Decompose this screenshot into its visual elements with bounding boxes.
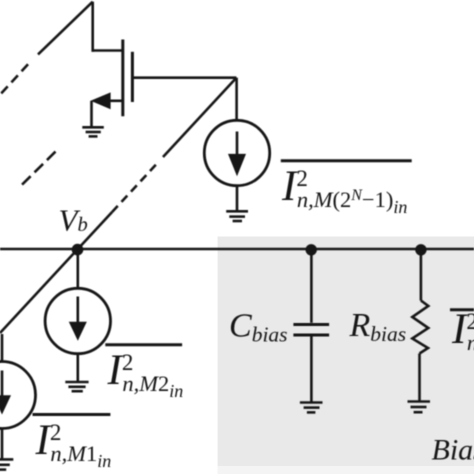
ground under I_n,M1 [0, 459, 13, 469]
V_b bias rail [0, 248, 474, 251]
wire: source tap horizontal [108, 100, 123, 103]
wire: R_bias top [420, 249, 423, 301]
gate diagonal rail solid upper part [163, 78, 236, 157]
current source I_n,M(2^N-1) circle [204, 120, 269, 185]
ground under I_n,M2 [65, 382, 88, 391]
wire: below current source to ground [236, 186, 239, 212]
ground under R_bias [408, 402, 431, 413]
current source I_n,M2 arrow shaft [77, 297, 80, 325]
wire: drain tap horizontal into transistor [93, 49, 123, 52]
current source I_n,M1 arrow shaft [1, 371, 4, 399]
wire: C_bias bottom to ground [310, 337, 313, 403]
current source I_n,M(2^N-1) arrow head [228, 154, 246, 176]
gate diagonal rail dashed middle [112, 165, 156, 212]
short dashed ellipsis rail [22, 152, 56, 186]
svg-text:Bias Circ: Bias Circ [432, 434, 474, 467]
junction dot V_b node [72, 244, 84, 256]
svg-text:I2n,: I2n, [451, 306, 474, 355]
wire: C_bias top [310, 249, 313, 323]
bias box lighter bottom strip [218, 466, 474, 474]
transistor M(2^N-1) gate bar [131, 52, 134, 102]
junction dot R_bias node [415, 244, 426, 255]
wire: below M1 noise source to ground [1, 429, 4, 460]
wire: V_b node down to M2 noise source [77, 249, 80, 289]
junction dot C_bias node [306, 244, 317, 255]
current source arrow shaft [236, 132, 239, 157]
ground under C_bias [300, 403, 323, 413]
wire: below M2 noise source to ground [77, 354, 80, 382]
wire: source down to ground [90, 101, 93, 127]
ground under transistor [82, 127, 104, 136]
gate diagonal rail solid lower part to V_b [0, 212, 112, 333]
wire: drain vertical from apex [91, 2, 94, 52]
wire: drain diagonal rail dashed continuation [0, 64, 28, 98]
current source I_n,M2 arrow head [69, 322, 87, 341]
capacitor C_bias top plate [293, 323, 329, 326]
current source I_n,M1 circle [0, 362, 36, 429]
wire: M1 branch top [1, 334, 4, 362]
overline for I_n,M2 label [105, 343, 182, 346]
overline for I_n,M1 label [33, 413, 111, 416]
transistor M(2^N-1) channel bar [121, 40, 124, 117]
overline for I_n,M(2^N-1) label [281, 159, 412, 162]
wire: drain diagonal rail (solid part) to apex [38, 2, 93, 55]
current source I_n,M1 arrow head [0, 395, 11, 414]
transistor source arrow head [91, 92, 111, 109]
ground under I_n,M(2^N-1) [226, 211, 248, 221]
resistor R_bias zigzag [412, 301, 428, 354]
wire: corner down to noise source [235, 78, 238, 121]
bias circuit shaded box [218, 237, 474, 467]
capacitor C_bias bottom plate [293, 334, 329, 337]
current source I_n,M2 circle [45, 288, 110, 353]
overline for I_n,bias label (right edge) [450, 308, 474, 311]
wire: gate horizontal to corner [132, 76, 236, 79]
wire: R_bias bottom to ground [418, 354, 421, 402]
